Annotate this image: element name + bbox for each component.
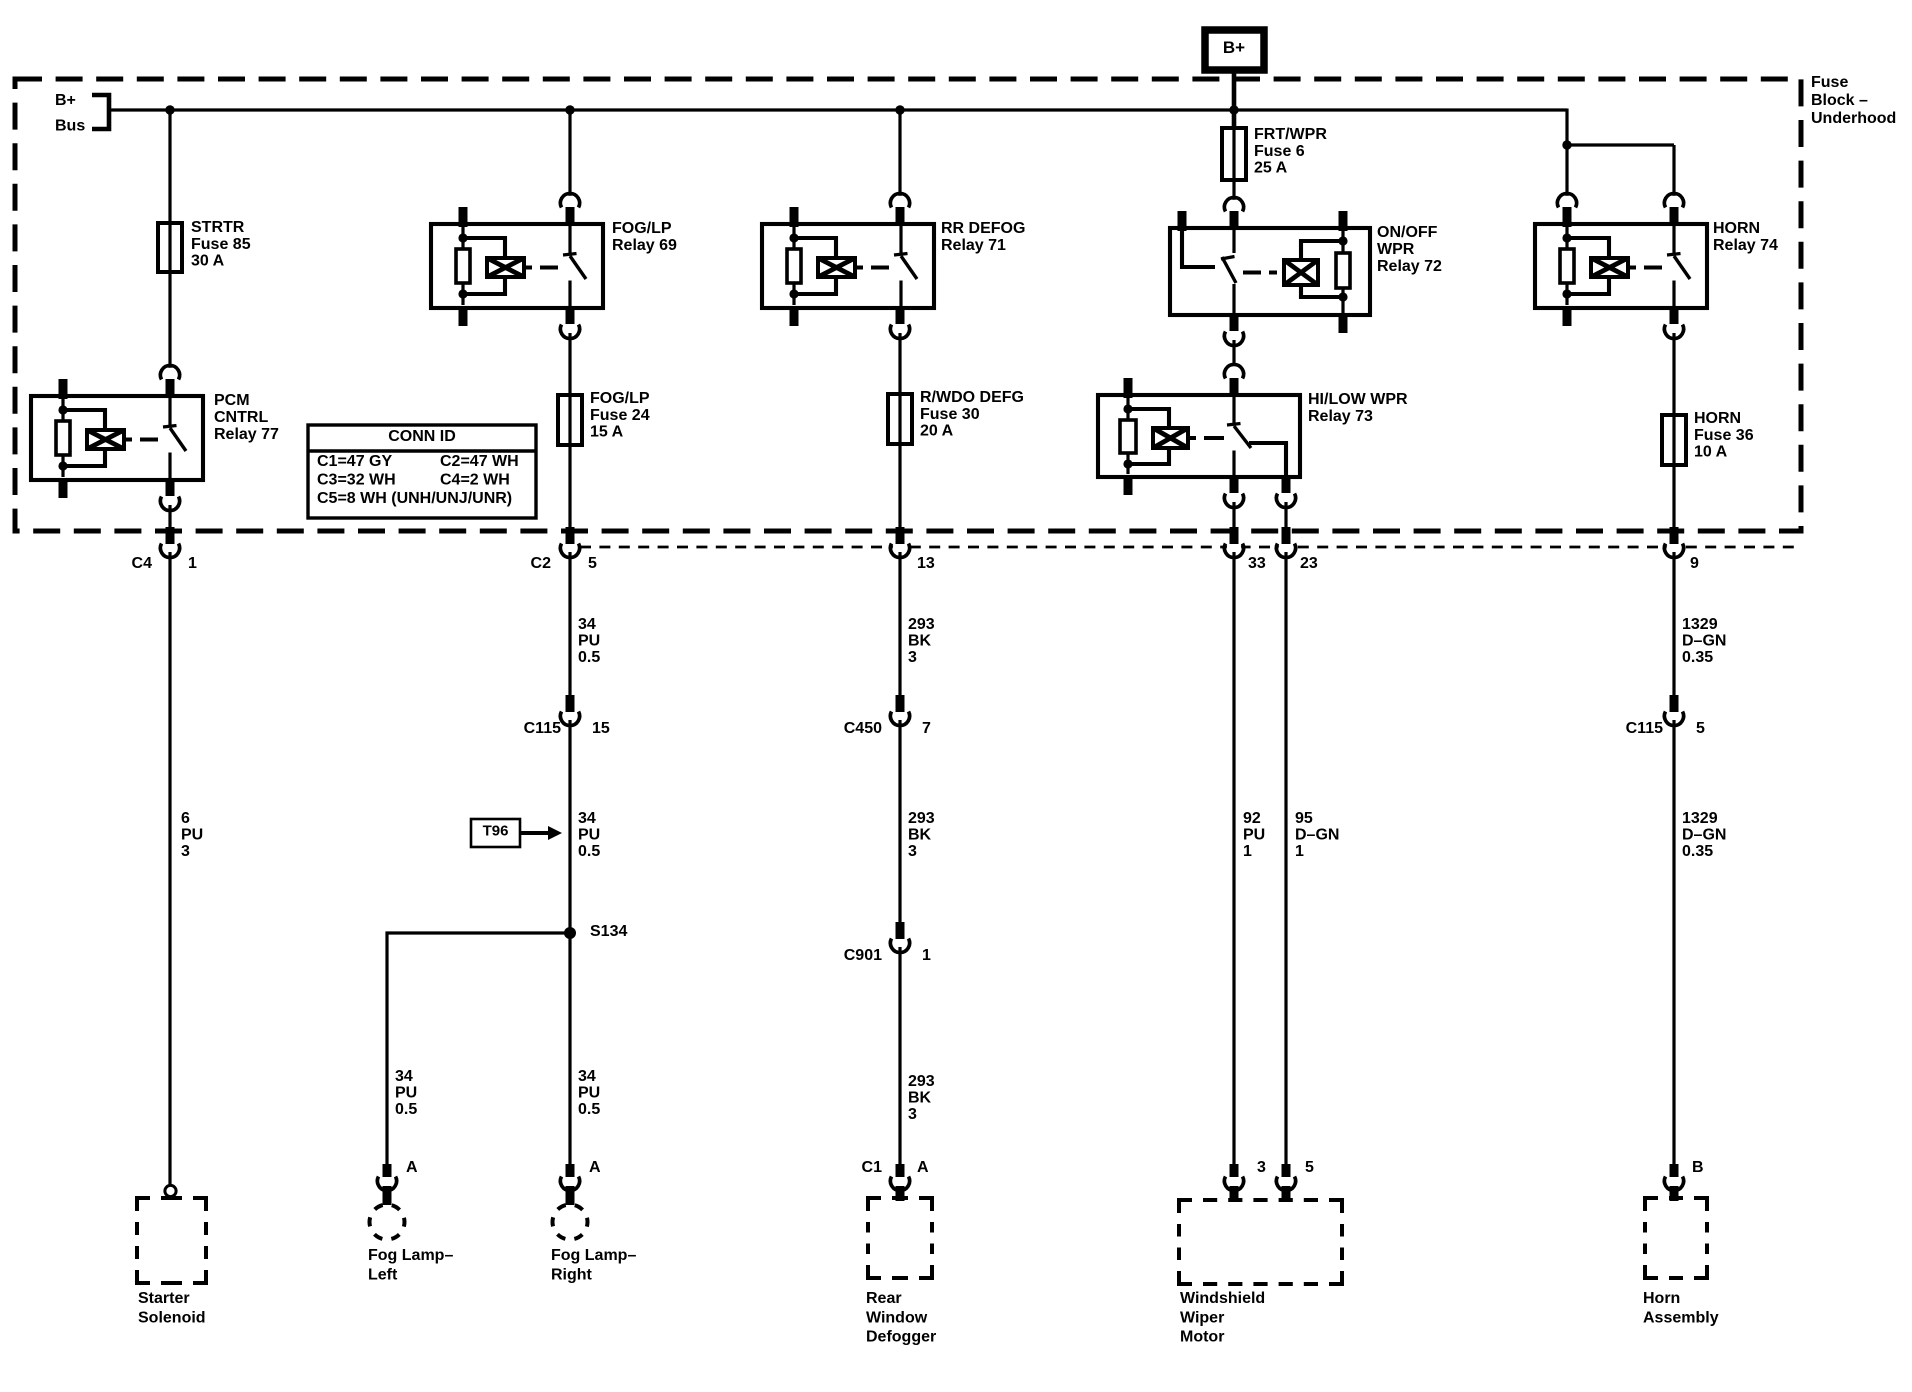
- wire C901 to rear defogger: [898, 947, 901, 1176]
- wire C4 to starter solenoid: [168, 552, 171, 1186]
- svg-text:10 A: 10 A: [1694, 443, 1728, 460]
- svg-text:HORN: HORN: [1694, 410, 1741, 427]
- connector socket relay 72 output pin: [1227, 329, 1241, 343]
- svg-text:FRT/WPR: FRT/WPR: [1254, 126, 1327, 143]
- svg-text:PU: PU: [578, 827, 600, 844]
- wire relay 73 out A to boundary: [1232, 502, 1235, 530]
- svg-text:0.5: 0.5: [578, 843, 600, 860]
- connector socket relay 74 coil pin: [1560, 196, 1574, 210]
- svg-text:25 A: 25 A: [1254, 159, 1288, 176]
- load fog lamp left bulb: [370, 1205, 405, 1240]
- svg-text:STRTR: STRTR: [191, 219, 245, 236]
- load box rear window defogger: [868, 1198, 881, 1211]
- load fog lamp right bulb: [553, 1205, 588, 1240]
- wire S134 branch to fog lamp left: [387, 933, 570, 1176]
- svg-text:0.5: 0.5: [578, 1101, 600, 1118]
- svg-text:6: 6: [181, 810, 190, 827]
- svg-text:A: A: [589, 1159, 601, 1176]
- svg-text:Fuse 85: Fuse 85: [191, 236, 251, 253]
- svg-text:33: 33: [1248, 555, 1266, 572]
- svg-text:PU: PU: [181, 827, 203, 844]
- svg-text:Relay 73: Relay 73: [1308, 408, 1373, 425]
- fuse F24 FOG/LP 15A: [558, 395, 582, 445]
- svg-text:Fog Lamp–: Fog Lamp–: [551, 1247, 636, 1264]
- svg-text:C3=32 WH: C3=32 WH: [317, 472, 396, 489]
- svg-text:1: 1: [1295, 843, 1304, 860]
- svg-text:B: B: [1692, 1159, 1704, 1176]
- svg-text:Relay 77: Relay 77: [214, 426, 279, 443]
- svg-text:C4: C4: [132, 555, 153, 572]
- connector socket relay 69 output pin: [563, 322, 577, 336]
- svg-text:9: 9: [1690, 555, 1699, 572]
- wire C115 to S134: [568, 720, 571, 933]
- svg-text:C115: C115: [1626, 720, 1663, 737]
- svg-text:D–GN: D–GN: [1682, 633, 1726, 650]
- inline connector C2 pin 5 at fuse block boundary: [563, 541, 577, 555]
- svg-text:Horn: Horn: [1643, 1290, 1680, 1307]
- connector socket relay 69 input pin: [563, 196, 577, 210]
- svg-text:RR DEFOG: RR DEFOG: [941, 220, 1025, 237]
- svg-text:C5=8 WH (UNH/UNJ/UNR): C5=8 WH (UNH/UNJ/UNR): [317, 490, 512, 507]
- svg-text:Motor: Motor: [1180, 1329, 1224, 1346]
- wire fuse 24 to connector C2: [568, 445, 571, 530]
- wire C115 to horn assembly: [1672, 720, 1675, 1176]
- svg-text:0.35: 0.35: [1682, 843, 1713, 860]
- wire bus to fuse 85: [168, 110, 171, 224]
- svg-text:C115: C115: [524, 720, 561, 737]
- svg-text:30 A: 30 A: [191, 252, 225, 269]
- svg-text:95: 95: [1295, 810, 1313, 827]
- svg-text:293: 293: [908, 616, 935, 633]
- wire fuse 36 to boundary: [1672, 465, 1675, 530]
- svg-text:C2=47 WH: C2=47 WH: [440, 453, 519, 470]
- svg-text:1: 1: [1243, 843, 1252, 860]
- wire relay 74 to fuse 36: [1672, 333, 1675, 416]
- svg-text:34: 34: [578, 810, 596, 827]
- svg-text:Relay 69: Relay 69: [612, 237, 677, 254]
- svg-text:5: 5: [588, 555, 597, 572]
- svg-text:15: 15: [592, 720, 610, 737]
- wire S134 to fog lamp right: [568, 933, 571, 1176]
- svg-text:Block –: Block –: [1811, 92, 1868, 109]
- svg-text:293: 293: [908, 1073, 935, 1090]
- svg-text:S134: S134: [590, 923, 627, 940]
- svg-text:1: 1: [188, 555, 197, 572]
- svg-text:B+: B+: [55, 92, 76, 109]
- svg-text:FOG/LP: FOG/LP: [612, 220, 672, 237]
- fuse F36 HORN 10A: [1662, 415, 1686, 465]
- junction dot bus / relay 71: [895, 105, 904, 114]
- svg-text:PU: PU: [1243, 827, 1265, 844]
- inline connector C450 pin 7: [893, 709, 907, 723]
- wire fuse 30 to boundary: [898, 444, 901, 530]
- relay U73 HI/LOW WPR: [1098, 395, 1300, 477]
- connector socket relay 72 input pin: [1227, 200, 1241, 214]
- connector socket relay 73 input pin: [1227, 367, 1241, 381]
- svg-text:Fuse: Fuse: [1811, 74, 1848, 91]
- svg-text:BK: BK: [908, 827, 932, 844]
- relay U72 ON/OFF WPR: [1170, 228, 1370, 315]
- connector socket relay 73 output pin 33: [1227, 491, 1241, 505]
- wire pin 33 to wiper motor: [1232, 552, 1235, 1176]
- splice S134: [564, 927, 576, 939]
- svg-text:D–GN: D–GN: [1295, 827, 1339, 844]
- junction dot bus / fuse 85: [165, 105, 174, 114]
- wire bus to fuse 6: [1232, 110, 1237, 129]
- svg-text:23: 23: [1300, 555, 1318, 572]
- wire relay 72 to relay 73: [1232, 340, 1235, 363]
- junction dot bus / relay 69: [565, 105, 574, 114]
- junction dot horn branch: [1562, 140, 1571, 149]
- wire C450 to C901: [898, 720, 901, 932]
- svg-text:1: 1: [922, 947, 931, 964]
- svg-text:Fuse 36: Fuse 36: [1694, 427, 1754, 444]
- svg-text:3: 3: [181, 843, 190, 860]
- wire B+ symbol to bus: [1232, 70, 1237, 111]
- svg-text:Windshield: Windshield: [1180, 1290, 1265, 1307]
- load box windshield wiper motor: [1179, 1200, 1192, 1213]
- svg-text:PU: PU: [578, 633, 600, 650]
- svg-text:Defogger: Defogger: [866, 1329, 936, 1346]
- wire pin 13 to C450: [898, 552, 901, 705]
- svg-text:Left: Left: [368, 1266, 398, 1283]
- svg-text:Rear: Rear: [866, 1290, 902, 1307]
- wire C2 to C115: [568, 552, 571, 705]
- svg-text:Fog Lamp–: Fog Lamp–: [368, 1247, 453, 1264]
- inline connector C115 pin 15: [563, 709, 577, 723]
- svg-text:3: 3: [908, 649, 917, 666]
- load box horn assembly: [1645, 1198, 1658, 1211]
- svg-text:CNTRL: CNTRL: [214, 409, 268, 426]
- ring terminal at starter solenoid: [165, 1185, 176, 1196]
- svg-text:34: 34: [578, 1068, 596, 1085]
- svg-text:CONN ID: CONN ID: [388, 428, 456, 445]
- svg-text:3: 3: [908, 1106, 917, 1123]
- inline connector C115 pin 5 (horn): [1667, 709, 1681, 723]
- svg-text:Solenoid: Solenoid: [138, 1309, 206, 1326]
- wire pin 23 to wiper motor: [1284, 552, 1287, 1176]
- svg-text:Fuse 30: Fuse 30: [920, 406, 980, 423]
- svg-text:PU: PU: [578, 1085, 600, 1102]
- inline connector pin 13 at fuse block boundary: [893, 541, 907, 555]
- svg-text:PCM: PCM: [214, 392, 250, 409]
- svg-text:C1: C1: [862, 1159, 883, 1176]
- svg-text:293: 293: [908, 810, 935, 827]
- wire branch to horn relay switch: [1567, 143, 1674, 146]
- svg-text:Relay 74: Relay 74: [1713, 237, 1778, 254]
- svg-text:15 A: 15 A: [590, 423, 624, 440]
- svg-text:Relay 71: Relay 71: [941, 237, 1006, 254]
- relay U77 PCM CNTRL: [31, 396, 203, 480]
- svg-text:13: 13: [917, 555, 935, 572]
- wire bus to relay 69 socket: [568, 110, 571, 196]
- svg-text:HORN: HORN: [1713, 220, 1760, 237]
- connector socket relay 71 input pin: [893, 196, 907, 210]
- battery feed B+ symbol: [1205, 30, 1264, 70]
- svg-text:3: 3: [1257, 1159, 1266, 1176]
- connector socket relay 74 switch pin: [1667, 196, 1681, 210]
- junction dot bus / fuse 6: [1229, 105, 1238, 114]
- svg-text:0.5: 0.5: [395, 1101, 417, 1118]
- svg-text:A: A: [406, 1159, 418, 1176]
- svg-text:3: 3: [908, 843, 917, 860]
- svg-text:5: 5: [1696, 720, 1705, 737]
- wire relay 69 to fuse 24: [568, 333, 571, 396]
- inline connector pin 33 at fuse block boundary: [1227, 541, 1241, 555]
- svg-text:20 A: 20 A: [920, 422, 954, 439]
- svg-text:7: 7: [922, 720, 931, 737]
- wire relay 77 to connector C4: [168, 505, 171, 530]
- svg-text:BK: BK: [908, 1090, 932, 1107]
- CONN ID table: [308, 425, 536, 518]
- svg-text:PU: PU: [395, 1085, 417, 1102]
- svg-text:D–GN: D–GN: [1682, 827, 1726, 844]
- load box starter solenoid: [137, 1198, 150, 1211]
- svg-text:C450: C450: [844, 720, 882, 737]
- wire bus corner down to horn relay coil: [1565, 109, 1568, 146]
- svg-text:Fuse 24: Fuse 24: [590, 407, 650, 424]
- relay U69 FOG/LP: [431, 224, 603, 308]
- svg-text:A: A: [917, 1159, 929, 1176]
- inline connector pin 9 at fuse block boundary: [1667, 541, 1681, 555]
- wire bus to relay 71 socket: [898, 110, 901, 196]
- svg-text:C2: C2: [531, 555, 552, 572]
- svg-text:C4=2 WH: C4=2 WH: [440, 472, 510, 489]
- svg-text:Wiper: Wiper: [1180, 1309, 1224, 1326]
- connector socket relay 71 output pin: [893, 322, 907, 336]
- wire to horn relay coil socket: [1565, 145, 1568, 196]
- svg-text:Underhood: Underhood: [1811, 110, 1896, 127]
- svg-text:T96: T96: [483, 823, 509, 840]
- svg-text:Window: Window: [866, 1309, 928, 1326]
- svg-text:ON/OFF: ON/OFF: [1377, 224, 1438, 241]
- wire fuse 6 to relay 72 socket: [1232, 180, 1235, 200]
- svg-text:Starter: Starter: [138, 1290, 190, 1307]
- wire relay 71 to fuse 30: [898, 333, 901, 396]
- svg-text:C901: C901: [844, 947, 882, 964]
- svg-text:34: 34: [578, 616, 596, 633]
- svg-text:R/WDO DEFG: R/WDO DEFG: [920, 389, 1024, 406]
- svg-text:C1=47 GY: C1=47 GY: [317, 453, 392, 470]
- svg-text:Fuse 6: Fuse 6: [1254, 143, 1305, 160]
- connector socket relay 77 input pin: [163, 368, 177, 382]
- svg-text:0.5: 0.5: [578, 649, 600, 666]
- svg-text:92: 92: [1243, 810, 1261, 827]
- fuse block - underhood dashed border: [15, 79, 1801, 531]
- svg-text:BK: BK: [908, 633, 932, 650]
- wire pin 9 to C115: [1672, 552, 1675, 705]
- svg-text:B+: B+: [1223, 38, 1245, 57]
- fuse F6 FRT/WPR 25A: [1222, 128, 1246, 180]
- svg-text:1329: 1329: [1682, 616, 1718, 633]
- connector face dotted line (underhood block C2 face): [580, 546, 1800, 549]
- relay U71 RR DEFOG: [762, 224, 934, 308]
- svg-text:1329: 1329: [1682, 810, 1718, 827]
- svg-text:FOG/LP: FOG/LP: [590, 390, 650, 407]
- inline connector C901 pin 1: [893, 936, 907, 950]
- svg-text:Assembly: Assembly: [1643, 1309, 1719, 1326]
- wire relay 73 out B to boundary: [1284, 502, 1287, 530]
- svg-text:Right: Right: [551, 1266, 593, 1283]
- svg-text:HI/LOW WPR: HI/LOW WPR: [1308, 391, 1408, 408]
- connector socket relay 77 output pin: [163, 494, 177, 508]
- connector socket relay 74 output pin: [1667, 322, 1681, 336]
- fuse F30 R/WDO DEFG 20A: [888, 394, 912, 444]
- svg-text:Bus: Bus: [55, 118, 85, 135]
- svg-text:0.35: 0.35: [1682, 649, 1713, 666]
- svg-text:Relay 72: Relay 72: [1377, 258, 1442, 275]
- wire B+ bus horizontal: [109, 108, 1567, 111]
- svg-text:5: 5: [1305, 1159, 1314, 1176]
- inline connector C4 pin 1 at fuse block boundary: [163, 541, 177, 555]
- connector socket relay 73 output pin 23: [1279, 491, 1293, 505]
- fuse F85 STRTR 30A: [158, 223, 182, 272]
- takeout T96: [471, 819, 520, 847]
- svg-text:34: 34: [395, 1068, 413, 1085]
- svg-text:WPR: WPR: [1377, 241, 1415, 258]
- wire fuse 85 to relay 77 socket: [168, 272, 171, 368]
- inline connector pin 23 at fuse block boundary: [1279, 541, 1293, 555]
- relay U74 HORN: [1535, 224, 1707, 308]
